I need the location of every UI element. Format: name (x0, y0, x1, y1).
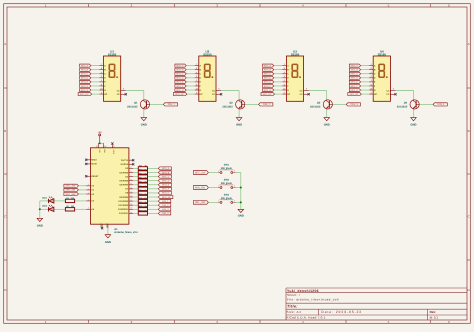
resistor R2 220 (65, 208, 74, 211)
wire U1 CC to Q1 collector (126, 90, 144, 92)
svg-text:A: A (468, 42, 470, 46)
svg-text:SEG_B: SEG_B (176, 68, 184, 71)
svg-text:9: 9 (196, 83, 197, 86)
A1 pin D11/PWM (129, 204, 133, 206)
wire R1 to LED1 (54, 200, 66, 202)
svg-text:SEG_F: SEG_F (176, 85, 184, 88)
svg-text:SEG_C: SEG_C (176, 73, 184, 76)
resistor R6 1k (138, 179, 147, 182)
svg-text:3: 3 (123, 88, 124, 91)
Arduino Nano A1 body (91, 148, 129, 224)
svg-text:SEC_SW: SEC_SW (65, 185, 76, 188)
svg-text:SEG_A: SEG_A (81, 64, 89, 67)
7-segment display U3 (286, 56, 303, 101)
U4 CC pin 3 (390, 90, 395, 92)
wire SEG_DP to U4 pin 5 (361, 93, 369, 95)
wire U4 CC to Q4 collector (396, 90, 414, 92)
svg-text:Rev:: Rev: (430, 310, 437, 314)
global label SEG_D (at A1) (158, 179, 171, 182)
svg-text:SEG_DP: SEG_DP (349, 93, 358, 96)
wire SEG_D to U4 pin 2 (361, 77, 370, 79)
U1 CC pin 8 (no connect) (121, 93, 126, 95)
resistor R13 1k (138, 208, 147, 211)
global label SEG_A (at A1) (158, 167, 171, 170)
global label SEL_SW (at A1) (64, 192, 79, 195)
svg-text:2: 2 (234, 169, 235, 172)
svg-text:DP: DP (374, 93, 378, 96)
svg-text:4: 4 (284, 71, 285, 74)
svg-text:GND: GND (238, 215, 244, 218)
svg-text:D3/PWM: D3/PWM (120, 171, 129, 174)
wire SEG_DP to U2 pin 5 (187, 93, 195, 95)
ground below Q3 (324, 118, 330, 121)
svg-text:1: 1 (196, 79, 197, 82)
global label SEG_C (display 2) (175, 72, 186, 75)
svg-text:1: 1 (218, 199, 219, 202)
wire MIN_SW to SW2 (208, 187, 218, 189)
wire U3 CC to Q3 collector (309, 90, 327, 92)
svg-text:3: 3 (306, 88, 307, 91)
wire D3/PWM to R4 (133, 171, 138, 173)
wire R8 to label SEG_F (148, 188, 159, 190)
svg-text:SW3: SW3 (224, 193, 230, 196)
A1 pin RESET (no connect) (86, 175, 90, 177)
wire Q3 emitter to GND (326, 109, 328, 118)
svg-text:1: 1 (371, 79, 372, 82)
svg-text:27: 27 (96, 145, 98, 148)
global label SEG_A (display 2) (175, 64, 186, 67)
wire Q2 base to DIG_2 (245, 103, 259, 105)
svg-text:D13/SCK: D13/SCK (119, 212, 128, 215)
svg-text:SEG_D: SEG_D (350, 77, 358, 80)
wire LED2 cathode (40, 208, 49, 210)
svg-text:SEG_DP: SEG_DP (175, 93, 184, 96)
global label SEG_A (display 3) (263, 64, 274, 67)
svg-text:5: 5 (284, 91, 285, 94)
A1 pin VIN (103, 143, 105, 148)
global label SEG_D (display 4) (349, 76, 360, 79)
svg-text:DP: DP (287, 93, 291, 96)
svg-text:SEG_F: SEG_F (81, 85, 89, 88)
wire Q1 emitter to GND (143, 109, 145, 118)
U3 CC pin 8 (no connect) (304, 93, 309, 95)
U2 CC pin 3 (216, 90, 221, 92)
resistor R9 1k (138, 191, 147, 194)
ground below switches (238, 209, 244, 212)
svg-text:2SC1815: 2SC1815 (397, 106, 408, 109)
svg-text:CC: CC (117, 89, 121, 92)
global label MIN_SW (at SW2) (193, 186, 208, 190)
svg-text:CC: CC (386, 89, 390, 92)
A1 pin +5V (97, 143, 99, 148)
wire R14 to label DIG_4 (148, 212, 159, 214)
svg-text:MOSI: MOSI (91, 163, 97, 166)
svg-text:4: 4 (371, 71, 372, 74)
global label SEG_B (display 1) (80, 68, 91, 71)
wire SEG_E to U2 pin 1 (186, 81, 195, 83)
svg-text:10: 10 (100, 87, 102, 90)
svg-text:7: 7 (284, 63, 285, 66)
wire SEG_D to U1 pin 2 (91, 77, 100, 79)
svg-text:MISO: MISO (91, 159, 97, 162)
svg-text:7: 7 (196, 63, 197, 66)
svg-text:SEG_E: SEG_E (351, 81, 359, 84)
wire SEG_C to U2 pin 4 (186, 73, 195, 75)
svg-text:SEG_G: SEG_G (350, 89, 358, 92)
svg-text:+5V: +5V (98, 131, 103, 134)
svg-text:+3V3: +3V3 (112, 149, 115, 153)
ground below A1 (105, 235, 111, 238)
global label SEC_SW (at A1) (64, 184, 79, 187)
svg-text:6: 6 (284, 67, 285, 70)
global label SEL_SW (at SW3) (193, 201, 208, 205)
A1 pin D1 (no connect) (129, 163, 133, 165)
global label SEG_E (display 4) (349, 80, 360, 83)
global label SEG_G (display 3) (263, 88, 274, 91)
svg-text:MIN_SW: MIN_SW (66, 189, 76, 192)
resistor R1 220 (65, 199, 74, 202)
svg-text:SEG_D: SEG_D (176, 77, 184, 80)
wire D10/PWM to R11 (133, 200, 138, 202)
A1 pin D0 (no connect) (129, 159, 133, 161)
svg-text:17: 17 (113, 145, 115, 148)
svg-text:CC: CC (386, 93, 390, 96)
svg-text:6: 6 (371, 67, 372, 70)
svg-text:DIG_4: DIG_4 (437, 103, 445, 106)
title block frame (285, 288, 287, 320)
wire SEG_E to U1 pin 1 (91, 81, 100, 83)
svg-text:B: B (4, 129, 6, 133)
wire SEG_G to U3 pin 10 (274, 89, 283, 91)
svg-text:SEG_F: SEG_F (162, 188, 170, 191)
svg-text:Sheet: /: Sheet: / (287, 293, 300, 297)
global label SEG_DP (at A1) (158, 195, 173, 198)
svg-text:2SC1815: 2SC1815 (222, 106, 233, 109)
svg-text:SEG_DP: SEG_DP (263, 93, 272, 96)
svg-text:1: 1 (218, 169, 219, 172)
svg-text:GND: GND (105, 223, 108, 228)
resistor R3 1k (138, 167, 147, 170)
svg-text:SEG_A: SEG_A (162, 167, 170, 170)
transistor Q4 2SC1815 (410, 100, 419, 109)
global label SEG_A (display 4) (349, 64, 360, 67)
global label DIG_2 (at A1) (158, 204, 171, 207)
7-segment display U1 (104, 56, 121, 101)
svg-text:CC: CC (117, 93, 121, 96)
svg-text:2: 2 (284, 75, 285, 78)
transistor Q2 2SC1815 (236, 100, 245, 109)
svg-text:S5160: S5160 (108, 53, 117, 57)
wire SEG_G to U2 pin 10 (186, 89, 195, 91)
wire Q2 emitter to GND (238, 109, 240, 118)
svg-text:SEG_G: SEG_G (176, 89, 184, 92)
svg-text:SEG_A: SEG_A (351, 64, 359, 67)
wire SEL_SW to A1 (78, 193, 86, 195)
svg-text:SEG_E: SEG_E (162, 184, 170, 187)
wire SEG_B to U3 pin 6 (274, 69, 283, 71)
svg-text:KiCad E.D.A. kicad 7.0.1: KiCad E.D.A. kicad 7.0.1 (287, 316, 326, 320)
U2 CC pin 8 (no connect) (216, 93, 221, 95)
svg-text:D11/PWM: D11/PWM (118, 204, 128, 207)
svg-text:2: 2 (196, 75, 197, 78)
global label SEG_G (display 1) (80, 88, 91, 91)
svg-text:SEG_B: SEG_B (162, 171, 170, 174)
svg-text:D1/TX1: D1/TX1 (121, 159, 129, 162)
A1 pin D4 (129, 176, 133, 178)
junction SW3 (240, 201, 242, 203)
wire R10 to label SEG_DP (148, 196, 159, 198)
frame row ticks left (4, 87, 7, 89)
wire SEC_SW to A1 (78, 185, 86, 187)
global label DIG_4 (at A1) (158, 212, 171, 215)
global label SEG_E (display 3) (263, 80, 274, 83)
svg-text:GND: GND (105, 241, 111, 244)
svg-text:CC: CC (300, 93, 304, 96)
wire D2 to R3 (133, 167, 138, 169)
svg-text:CC: CC (212, 89, 216, 92)
A1 pin D8 (129, 192, 133, 194)
svg-text:SEG_E: SEG_E (264, 81, 272, 84)
wire R6 to label SEG_D (148, 180, 159, 182)
wire Q4 base to DIG_4 (419, 103, 433, 105)
svg-text:SEG_G: SEG_G (162, 192, 170, 195)
wire SEG_D to U2 pin 2 (186, 77, 195, 79)
wire SEG_F to U3 pin 9 (274, 85, 283, 87)
resistor R11 1k (138, 199, 147, 202)
wire D12/MISO to R13 (133, 208, 138, 210)
svg-text:SEC_SW: SEC_SW (195, 171, 206, 174)
global label SEG_C (at A1) (158, 175, 171, 178)
global label SEG_G (display 2) (175, 88, 186, 91)
A1 pin GND (no connect) (101, 224, 103, 228)
svg-text:4: 4 (196, 71, 197, 74)
global label SEG_A (display 1) (80, 64, 91, 67)
svg-text:SEG_A: SEG_A (264, 64, 272, 67)
wire D7 to R8 (133, 188, 138, 190)
svg-text:Arduino_Nano_v3.x: Arduino_Nano_v3.x (114, 231, 138, 234)
wire D4 to R5 (133, 176, 138, 178)
global label SEG_B (display 2) (175, 68, 186, 71)
wire SW3 to ground bus (236, 201, 241, 203)
svg-text:SEG_E: SEG_E (81, 81, 89, 84)
global label SEG_E (display 2) (175, 80, 186, 83)
svg-text:10: 10 (370, 87, 372, 90)
svg-text:LED2: LED2 (42, 205, 48, 208)
global label SEG_F (display 4) (349, 84, 360, 87)
resistor R10 1k (138, 195, 147, 198)
svg-text:1: 1 (218, 184, 219, 187)
wire A1 GND pin to ground (107, 228, 109, 235)
push button SW1 SW_Push (218, 172, 220, 174)
svg-text:SEG_D: SEG_D (264, 77, 272, 80)
U4 CC pin 8 (no connect) (390, 93, 395, 95)
svg-text:5: 5 (101, 91, 102, 94)
U3 CC pin 3 (304, 90, 309, 92)
svg-text:30: 30 (104, 145, 106, 148)
svg-text:SEL_SW: SEL_SW (66, 193, 76, 196)
svg-text:SW_Push: SW_Push (221, 182, 233, 185)
global label SEG_DP (display 4) (348, 93, 362, 96)
A1 pin D12/MISO (129, 208, 133, 210)
svg-text:7: 7 (371, 63, 372, 66)
junction SW2 (240, 187, 242, 189)
wire D5/PWM to R6 (133, 180, 138, 182)
global label SEG_D (display 1) (80, 76, 91, 79)
resistor R8 1k (138, 187, 147, 190)
svg-text:Size: A4: Size: A4 (287, 310, 302, 314)
wire D11/PWM to R12 (133, 204, 138, 206)
wire D13/SCK to R14 (133, 212, 138, 214)
A1 pin GND (107, 224, 109, 228)
transistor Q1 2SC1815 (140, 100, 149, 109)
global label SEG_D (display 2) (175, 76, 186, 79)
global label SEG_E (display 1) (80, 80, 91, 83)
wire SEC_SW to SW1 (208, 172, 218, 174)
A1 pin D9/PWM (129, 196, 133, 198)
svg-text:GND: GND (37, 224, 43, 227)
wire R3 to label SEG_A (148, 167, 159, 169)
wire +5V to A1 top pins (98, 142, 103, 144)
svg-text:G: G (200, 89, 202, 92)
svg-text:SEL_SW: SEL_SW (195, 201, 206, 204)
svg-text:D9/PWM: D9/PWM (120, 196, 129, 199)
wire SEG_DP to U1 pin 5 (92, 93, 100, 95)
wire SEG_C to U3 pin 4 (274, 73, 283, 75)
wire LED1 cathode (40, 200, 49, 202)
A1 pin to R2 wire (86, 208, 90, 210)
svg-text:MIN_SW: MIN_SW (195, 186, 206, 189)
svg-text:SEG_D: SEG_D (81, 77, 89, 80)
A1 pin D1/TX (no connect) (86, 159, 90, 161)
global label SEG_D (display 3) (263, 76, 274, 79)
push button SW2 SW_Push (218, 187, 220, 189)
resistor R7 1k (138, 183, 147, 186)
svg-text:D12/MISO: D12/MISO (118, 208, 128, 211)
global label SEG_C (display 1) (80, 72, 91, 75)
global label DIG_3 (346, 103, 360, 106)
svg-text:GND: GND (141, 124, 147, 127)
wire SEG_F to U4 pin 9 (361, 85, 370, 87)
LED LED1 (49, 199, 54, 203)
global label SEG_F (display 3) (263, 84, 274, 87)
global label SEG_G (display 4) (349, 88, 360, 91)
wire SEG_A to U3 pin 7 (274, 65, 283, 67)
svg-text:9: 9 (101, 83, 102, 86)
svg-text:9: 9 (371, 83, 372, 86)
svg-text:LED1: LED1 (42, 196, 48, 199)
svg-text:9: 9 (284, 83, 285, 86)
svg-text:GND: GND (411, 124, 417, 127)
wire R7 to label SEG_E (148, 184, 159, 186)
svg-text:2: 2 (234, 199, 235, 202)
svg-text:SEG_G: SEG_G (264, 89, 272, 92)
global label SEG_F (at A1) (158, 187, 171, 190)
wire R2 to LED2 (54, 208, 66, 210)
global label DIG_2 (259, 103, 273, 106)
svg-text:DIG_2: DIG_2 (162, 204, 169, 207)
A1 pin D7 (129, 188, 133, 190)
U1 CC pin 3 (121, 90, 126, 92)
svg-text:SW_Push: SW_Push (221, 197, 233, 200)
svg-text:G: G (287, 89, 289, 92)
svg-text:Q3: Q3 (317, 102, 321, 105)
svg-text:4: 4 (101, 71, 102, 74)
svg-text:SEG_DP: SEG_DP (162, 196, 171, 199)
svg-text:SEG_D: SEG_D (162, 179, 170, 182)
global label SEG_DP (display 1) (78, 93, 92, 96)
A1 pin D6/PWM (129, 184, 133, 186)
ground below Q4 (411, 118, 417, 121)
global label SEG_G (at A1) (158, 191, 171, 194)
svg-text:5: 5 (196, 91, 197, 94)
global label SEG_DP (display 3) (261, 93, 275, 96)
wire D8 to R9 (133, 192, 138, 194)
global label DIG_4 (433, 103, 447, 106)
svg-text:DIG_1: DIG_1 (168, 103, 176, 106)
wire SEG_G to U1 pin 10 (91, 89, 100, 91)
svg-text:SEG_B: SEG_B (351, 68, 359, 71)
svg-text:GND: GND (100, 223, 103, 228)
global label SEG_B (display 4) (349, 68, 360, 71)
wire SW1 to ground bus (236, 172, 241, 174)
svg-text:2SC1815: 2SC1815 (310, 106, 321, 109)
wire R4 to label SEG_B (148, 171, 159, 173)
wire SEL_SW to SW3 (208, 201, 218, 203)
svg-text:SW2: SW2 (224, 178, 230, 181)
svg-text:DP: DP (104, 93, 108, 96)
wire SW2 to ground bus (236, 187, 241, 189)
svg-text:DIG_2: DIG_2 (263, 103, 271, 106)
svg-text:Date: 2023-05-22: Date: 2023-05-22 (321, 310, 362, 314)
svg-text:File: arduino_timer.kicad_sch: File: arduino_timer.kicad_sch (287, 298, 339, 302)
A1 pin D0/RX (no connect) (86, 163, 90, 165)
svg-text:B: B (468, 129, 470, 133)
svg-text:6: 6 (196, 67, 197, 70)
svg-text:5: 5 (371, 91, 372, 94)
svg-text:D5/PWM: D5/PWM (120, 179, 129, 182)
svg-text:SEG_C: SEG_C (264, 73, 272, 76)
svg-text:A: A (4, 42, 6, 46)
svg-text:SEG_B: SEG_B (264, 68, 272, 71)
resistor R5 1k (138, 175, 147, 178)
svg-text:GND: GND (236, 124, 242, 127)
wire SEG_C to U4 pin 4 (361, 73, 370, 75)
svg-text:3: 3 (393, 88, 394, 91)
svg-text:Title:: Title: (287, 305, 298, 309)
svg-text:SEG_C: SEG_C (162, 175, 170, 178)
svg-text:SEG_C: SEG_C (81, 73, 89, 76)
wire SEG_B to U2 pin 6 (186, 69, 195, 71)
svg-text:DIG_1: DIG_1 (162, 200, 169, 203)
svg-text:DIG_4: DIG_4 (162, 212, 169, 215)
wire R12 to label DIG_2 (148, 204, 159, 206)
svg-text:RESET: RESET (91, 175, 99, 178)
frame row ticks right (467, 87, 470, 89)
global label SEG_B (display 3) (263, 68, 274, 71)
wire SEG_A to U2 pin 7 (186, 65, 195, 67)
7-segment display U4 (373, 56, 390, 101)
A1 pin D5/PWM (129, 180, 133, 182)
push button SW3 SW_Push (218, 201, 220, 203)
global label SEG_B (at A1) (158, 171, 171, 174)
global label DIG_3 (at A1) (158, 208, 171, 211)
svg-text:SEG_B: SEG_B (81, 68, 89, 71)
frame column ticks top (88, 4, 90, 7)
global label SEG_C (display 3) (263, 72, 274, 75)
svg-text:Id: 1/1: Id: 1/1 (430, 316, 439, 320)
svg-text:6: 6 (101, 67, 102, 70)
wire SEG_A to U1 pin 7 (91, 65, 100, 67)
